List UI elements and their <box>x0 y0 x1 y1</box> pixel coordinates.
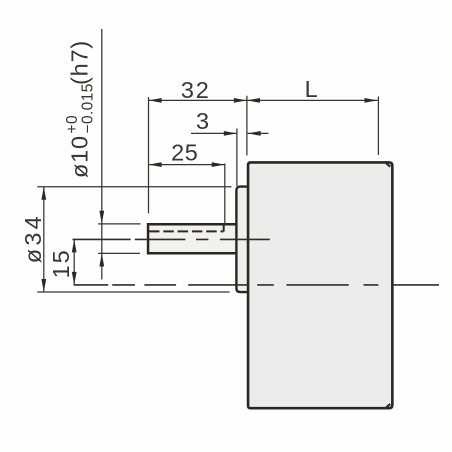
svg-text:32: 32 <box>181 77 211 103</box>
svg-text:+0: +0 <box>64 115 81 133</box>
gearbox body <box>248 162 392 408</box>
extension line y=253.4 (dia10 bottom) <box>98 252 140 254</box>
extension line y=186.8 (dia34 top) <box>37 186 231 188</box>
svg-text:25: 25 <box>171 140 198 166</box>
svg-text:ø10: ø10 <box>67 135 93 178</box>
shaft centerline (dash-dot) <box>73 238 270 240</box>
svg-text:−0.015: −0.015 <box>80 83 97 133</box>
svg-text:15: 15 <box>48 248 74 278</box>
svg-text:ø34: ø34 <box>20 213 46 263</box>
dimension line 15 <box>73 239 75 285</box>
flange <box>236 187 248 293</box>
arrow dia34 down <box>41 279 46 292</box>
arrow 25 right <box>212 162 225 167</box>
arrow 3 left-tail pointing right <box>224 131 237 136</box>
arrow dia10 down (upper) <box>99 211 104 224</box>
arrow 25 left <box>149 162 162 167</box>
dimension line 32 and L <box>149 99 378 101</box>
arrow dia10 up (lower) <box>99 254 104 267</box>
arrow L left <box>247 98 260 103</box>
arrow L right <box>365 98 378 103</box>
shaft flat hidden dashed line <box>149 230 224 232</box>
extension line y=223.9 (dia10 top) <box>98 223 140 225</box>
shaft flat end step <box>223 224 225 231</box>
body corner nub bottom-right <box>386 404 390 407</box>
extension line x=236.9 (3 left) <box>236 129 238 187</box>
dimension line 3 tails <box>191 132 268 134</box>
dia10 dimension line <box>101 29 103 280</box>
arrow 32 left <box>149 98 162 103</box>
dimension line 25 <box>149 164 225 166</box>
shaft <box>148 224 237 253</box>
extension line x=246.9 (32 right / L left) <box>246 96 248 156</box>
svg-text:(h7): (h7) <box>67 40 93 85</box>
arrow 15 down <box>72 272 77 285</box>
arrow 32 right <box>234 98 247 103</box>
extension line x=148.5 (32/25 left) <box>148 97 150 213</box>
arrow dia34 up <box>41 187 46 200</box>
dimension line dia34 <box>43 187 45 292</box>
extension line x=378.4 (L right) <box>377 97 379 156</box>
svg-text:L: L <box>305 76 318 102</box>
svg-text:3: 3 <box>196 108 209 134</box>
body corner nub top-right <box>386 163 390 166</box>
arrow 15 up <box>72 239 77 252</box>
extension line x=224.8 (25 right) <box>224 164 226 224</box>
arrow 3 right-tail pointing left <box>248 131 261 136</box>
extension line y=291.6 (dia34 bottom) <box>37 291 229 293</box>
body centerline (dash-dot) <box>74 284 439 286</box>
